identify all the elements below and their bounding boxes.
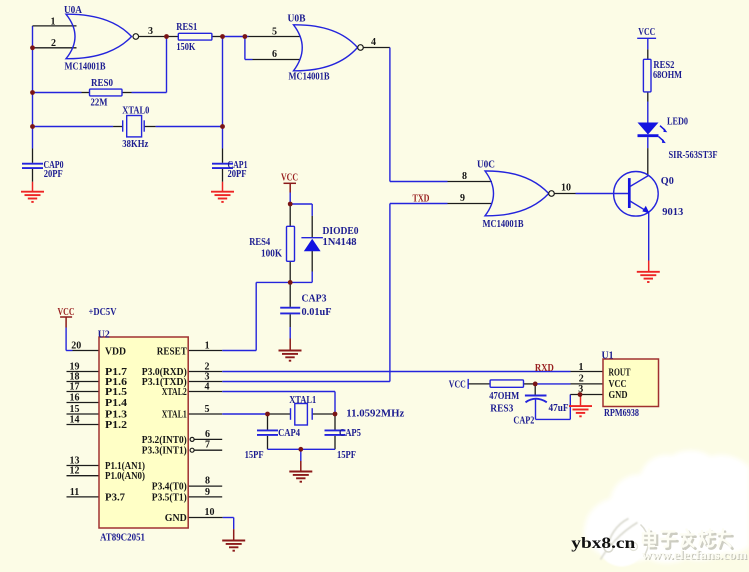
svg-text:6: 6 (272, 49, 277, 60)
svg-text:U2: U2 (98, 329, 110, 340)
svg-text:VCC: VCC (449, 379, 466, 390)
svg-text:ROUT: ROUT (609, 368, 631, 379)
svg-text:6: 6 (205, 429, 210, 440)
svg-text:TXD: TXD (413, 194, 430, 205)
svg-text:14: 14 (70, 415, 80, 426)
svg-text:VCC: VCC (638, 27, 655, 38)
svg-text:P3.7: P3.7 (105, 492, 125, 503)
svg-text:RES4: RES4 (249, 237, 271, 248)
svg-text:SIR-563ST3F: SIR-563ST3F (669, 150, 718, 161)
svg-text:P1.3: P1.3 (105, 410, 127, 421)
svg-text:9: 9 (460, 193, 465, 204)
svg-text:100K: 100K (261, 248, 283, 259)
svg-text:U0B: U0B (288, 14, 306, 25)
svg-text:U0C: U0C (477, 160, 495, 171)
svg-text:20PF: 20PF (44, 169, 63, 180)
svg-text:1N4148: 1N4148 (323, 237, 357, 248)
svg-text:LED0: LED0 (667, 117, 688, 128)
svg-text:1: 1 (51, 17, 56, 28)
svg-text:2: 2 (51, 38, 56, 49)
svg-text:RES3: RES3 (490, 404, 513, 415)
svg-text:www.elecfans.com: www.elecfans.com (642, 548, 748, 562)
svg-text:RES1: RES1 (176, 22, 197, 33)
svg-text:P3.5(T1): P3.5(T1) (152, 492, 187, 503)
svg-text:VCC: VCC (281, 173, 298, 184)
svg-text:MC14001B: MC14001B (483, 219, 524, 230)
svg-text:1: 1 (205, 341, 210, 352)
svg-text:ybx8.cn: ybx8.cn (571, 535, 635, 552)
svg-text:RXD: RXD (535, 363, 554, 374)
svg-text:P3.4(T0): P3.4(T0) (152, 482, 187, 493)
svg-text:15PF: 15PF (337, 450, 356, 461)
svg-text:47OHM: 47OHM (489, 391, 519, 402)
svg-text:2: 2 (579, 373, 584, 384)
svg-text:5: 5 (272, 27, 277, 38)
svg-text:XTAL0: XTAL0 (122, 106, 149, 117)
svg-text:3: 3 (148, 26, 153, 37)
svg-text:CAP3: CAP3 (302, 294, 327, 305)
svg-text:20PF: 20PF (228, 169, 247, 180)
svg-text:XTAL1: XTAL1 (289, 395, 316, 406)
svg-text:11: 11 (70, 487, 79, 498)
svg-text:10: 10 (561, 183, 571, 194)
svg-text:VCC: VCC (58, 307, 75, 318)
svg-text:CAP5: CAP5 (339, 428, 361, 439)
svg-text:+DC5V: +DC5V (89, 307, 117, 318)
svg-text:1: 1 (579, 362, 584, 373)
svg-text:5: 5 (205, 404, 210, 415)
svg-text:GND: GND (609, 390, 628, 401)
svg-text:9: 9 (205, 487, 210, 498)
svg-text:150K: 150K (176, 42, 196, 53)
svg-text:XTAL1: XTAL1 (162, 410, 187, 421)
svg-text:VCC: VCC (609, 379, 627, 390)
svg-text:DIODE0: DIODE0 (323, 226, 359, 237)
svg-text:17: 17 (70, 382, 80, 393)
svg-text:U1: U1 (602, 351, 614, 362)
svg-text:Q0: Q0 (661, 176, 674, 187)
svg-text:15PF: 15PF (245, 450, 264, 461)
svg-text:7: 7 (205, 440, 210, 451)
svg-text:P3.2(INT0): P3.2(INT0) (142, 435, 187, 446)
svg-text:P1.4: P1.4 (105, 398, 127, 409)
svg-text:22M: 22M (91, 97, 108, 108)
svg-text:P1.5: P1.5 (105, 387, 127, 398)
svg-text:15: 15 (70, 404, 80, 415)
svg-text:20: 20 (71, 341, 81, 352)
svg-text:GND: GND (165, 513, 187, 524)
svg-text:AT89C2051: AT89C2051 (100, 532, 145, 543)
svg-text:MC14001B: MC14001B (289, 72, 330, 83)
svg-text:VDD: VDD (105, 347, 126, 358)
svg-text:U0A: U0A (64, 5, 82, 16)
svg-text:12: 12 (70, 466, 80, 477)
svg-text:16: 16 (70, 393, 80, 404)
svg-text:CAP4: CAP4 (278, 428, 301, 439)
svg-text:RES0: RES0 (91, 78, 113, 89)
svg-text:4: 4 (371, 37, 376, 48)
svg-text:3: 3 (578, 384, 583, 395)
svg-text:38KHz: 38KHz (122, 139, 148, 150)
svg-text:9013: 9013 (662, 207, 683, 218)
svg-text:11.0592MHz: 11.0592MHz (346, 409, 404, 420)
svg-text:10: 10 (205, 507, 215, 518)
svg-text:XTAL2: XTAL2 (162, 387, 187, 398)
svg-text:CAP2: CAP2 (513, 415, 534, 426)
svg-text:68OHM: 68OHM (653, 70, 682, 81)
svg-text:MC14001B: MC14001B (65, 62, 106, 73)
svg-text:P1.2: P1.2 (105, 420, 127, 431)
svg-text:RESET: RESET (157, 347, 187, 358)
svg-text:4: 4 (205, 382, 210, 393)
svg-text:47uF: 47uF (549, 403, 569, 414)
svg-text:8: 8 (462, 171, 467, 182)
svg-text:P3.3(INT1): P3.3(INT1) (142, 446, 187, 457)
svg-text:P1.0(AN0): P1.0(AN0) (105, 471, 145, 482)
svg-text:RPM6938: RPM6938 (604, 408, 639, 419)
svg-text:0.01uF: 0.01uF (302, 307, 332, 318)
svg-text:8: 8 (205, 476, 210, 487)
